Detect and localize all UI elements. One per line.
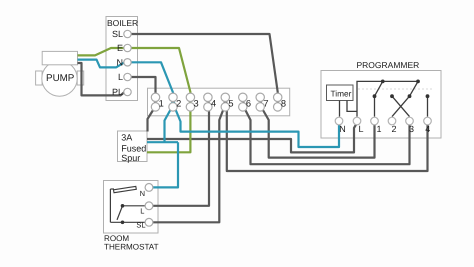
- svg-text:THERMOSTAT: THERMOSTAT: [104, 243, 159, 252]
- svg-text:N: N: [117, 57, 124, 67]
- svg-text:Spur: Spur: [121, 153, 140, 163]
- svg-text:2: 2: [176, 98, 181, 108]
- svg-text:1: 1: [376, 124, 381, 134]
- svg-text:Timer: Timer: [331, 89, 352, 99]
- svg-text:8: 8: [281, 98, 286, 108]
- svg-text:2: 2: [391, 124, 396, 134]
- svg-text:PUMP: PUMP: [46, 73, 75, 84]
- svg-text:L: L: [358, 124, 363, 134]
- svg-text:SL: SL: [136, 221, 145, 230]
- svg-text:4: 4: [211, 98, 216, 108]
- svg-text:N: N: [140, 189, 145, 198]
- svg-text:E: E: [117, 43, 123, 53]
- svg-text:PROGRAMMER: PROGRAMMER: [357, 60, 420, 70]
- svg-text:1: 1: [159, 98, 164, 108]
- svg-text:5: 5: [228, 98, 233, 108]
- svg-text:SL: SL: [112, 29, 123, 39]
- svg-text:3A: 3A: [121, 133, 132, 143]
- svg-text:4: 4: [425, 124, 430, 134]
- svg-text:PL: PL: [112, 87, 123, 97]
- svg-text:3: 3: [194, 98, 199, 108]
- svg-text:3: 3: [409, 124, 414, 134]
- svg-text:N: N: [339, 124, 346, 134]
- svg-text:BOILER: BOILER: [107, 18, 138, 28]
- svg-text:L: L: [140, 207, 144, 216]
- svg-text:L: L: [118, 72, 123, 82]
- svg-text:7: 7: [263, 98, 268, 108]
- svg-text:6: 6: [246, 98, 251, 108]
- svg-text:Fused: Fused: [121, 143, 146, 153]
